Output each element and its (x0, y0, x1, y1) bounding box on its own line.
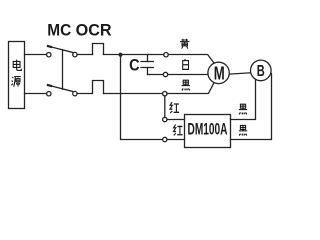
wire top rail MC to OCR (77, 54, 92, 56)
capacitor C bottom lead (147, 68, 149, 75)
svg-text:DM100A: DM100A (188, 120, 228, 139)
svg-text:OCR: OCR (76, 21, 112, 39)
svg-text:C: C (129, 56, 140, 74)
MC mechanical link (62, 50, 64, 90)
overload relay OCR heater bottom (93, 81, 104, 94)
label 源 (source) (11, 77, 20, 87)
label 黑 (black) right bottom (239, 125, 247, 135)
buzzer B circle (250, 60, 271, 81)
terminal red2 (163, 137, 167, 141)
capacitor C top lead (147, 55, 149, 62)
wire L2 from power to MC bottom (25, 93, 47, 95)
label 红 (red) 1 (170, 102, 179, 113)
contactor MC top pole right terminal (73, 52, 77, 56)
motor M circle (208, 62, 229, 83)
wire red2 to DM100A (167, 139, 185, 141)
contactor MC bottom pole left terminal (47, 92, 51, 96)
terminal yellow (164, 53, 168, 57)
wire bottom rail OCR to black terminal (104, 93, 163, 95)
contactor MC bottom pole right terminal (73, 91, 77, 95)
wire DM100A to B right (231, 74, 272, 140)
wire L1 from power to MC top (25, 54, 47, 56)
terminal black (163, 92, 167, 96)
label 黄 (yellow) (180, 39, 190, 49)
svg-text:M: M (214, 63, 225, 83)
terminal red1 (163, 117, 167, 121)
label 红 (red) 2 (174, 124, 183, 135)
label 黑 (black) left (182, 80, 190, 90)
terminal white (163, 72, 167, 76)
wire DM100A to B left (231, 80, 256, 120)
wire link black terminal to red1 terminal (164, 96, 166, 117)
power source box 电源 (9, 42, 25, 109)
wire bottom rail MC to OCR (77, 93, 92, 95)
wire black to motor (167, 82, 214, 93)
svg-text:B: B (257, 63, 265, 80)
node A junction dot (118, 53, 122, 57)
capacitor C plates (141, 62, 153, 68)
wire white to motor (168, 74, 208, 76)
wire from node A down to red2 (121, 55, 163, 140)
overload relay OCR heater top (93, 44, 104, 55)
wire white from capacitor to terminal (148, 74, 164, 76)
controller DM100A box (185, 115, 231, 148)
lever tip bottom (48, 84, 51, 87)
contactor MC top pole left terminal (47, 53, 51, 57)
wire M to B (229, 73, 251, 74)
wire top rail OCR to yellow terminal (104, 54, 164, 56)
label 黑 (black) right top (239, 104, 247, 114)
label 电 (electric) (13, 60, 21, 71)
svg-text:MC: MC (47, 21, 71, 39)
contactor MC bottom pole lever (48, 85, 72, 91)
contactor MC top pole lever (48, 46, 72, 52)
wire red1 to DM100A (167, 119, 185, 121)
wire yellow to motor (168, 55, 214, 64)
label 白 (white) (183, 59, 189, 69)
lever tip top (48, 45, 51, 48)
